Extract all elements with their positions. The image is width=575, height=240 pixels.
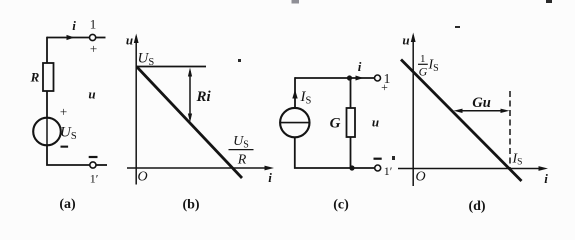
current source arrow IS direction: [292, 90, 297, 99]
current source IS (circle with bar): [280, 108, 309, 137]
svg-text:u: u: [88, 87, 95, 102]
terminal 1' of circuit (c): [375, 165, 381, 171]
terminal 1' of circuit (a): [90, 162, 96, 168]
graph (b) level line at u = US: [137, 66, 207, 68]
svg-text:R: R: [237, 153, 247, 168]
svg-text:(a): (a): [59, 197, 76, 212]
wire: left branch of (a) from top corner to resistor: [46, 37, 48, 63]
wire: bottom lead of (c): [294, 137, 375, 169]
svg-text:+: +: [381, 80, 388, 94]
svg-text:G: G: [419, 65, 428, 79]
svg-text:R: R: [30, 70, 40, 85]
wire: circuit (a) top lead from R to terminal 1: [47, 37, 89, 39]
polarity - at terminal 1' (a): [89, 156, 98, 158]
terminal stub right of node 1 (a): [96, 37, 106, 39]
graph (d) vertical axis u: [412, 35, 414, 186]
current arrow i on top wire of (a): [67, 35, 75, 40]
wire: from resistor to voltage source (a): [46, 91, 48, 118]
current arrow i on top wire of (c): [356, 76, 364, 81]
svg-text:(b): (b): [182, 198, 199, 213]
svg-text:1: 1: [420, 53, 426, 65]
terminal stub right of node 1' (a): [96, 164, 107, 166]
resistor R: [43, 63, 54, 91]
terminal 1 of circuit (c): [375, 75, 381, 81]
wire: middle branch of (c) above G: [350, 78, 352, 108]
svg-text:G: G: [330, 116, 341, 132]
graph (d) horizontal axis i: [398, 168, 544, 170]
svg-text:(d): (d): [468, 199, 485, 214]
voltage source US (circle symbol): [33, 118, 61, 146]
graph (b) horizontal axis i: [127, 167, 270, 169]
graph (d) load line from (1/G)IS to IS: [401, 60, 522, 182]
junction dot on top wire (c): [347, 75, 352, 80]
svg-text:O: O: [415, 170, 425, 185]
polarity - of source US: [61, 146, 69, 148]
wire: bottom lead of (a) to terminal 1': [46, 145, 89, 166]
svg-text:u: u: [372, 115, 379, 130]
wire: left branch of (c) above current source: [294, 77, 296, 108]
wire: circuit (c) top lead: [295, 77, 374, 79]
conductance G (rectangle): [347, 108, 356, 137]
svg-text:i: i: [268, 170, 272, 185]
svg-text:1′: 1′: [384, 164, 393, 178]
polarity - at terminal 1' (c): [374, 158, 382, 160]
graph (d) dashed line at i = IS: [509, 91, 511, 168]
graph (b) vertical axis u: [135, 36, 137, 185]
terminal 1 of circuit (a): [90, 34, 96, 40]
svg-text:Gu: Gu: [472, 95, 491, 111]
svg-text:i: i: [72, 18, 76, 33]
svg-text:+: +: [60, 104, 67, 119]
svg-text:1′: 1′: [90, 172, 99, 186]
wire: middle branch of (c) below G: [350, 137, 352, 168]
svg-text:u: u: [402, 33, 409, 48]
graph (b) Ri measure arrow: [189, 71, 191, 119]
svg-text:Ri: Ri: [196, 89, 212, 105]
graph (b) load line from US to US/R: [137, 67, 243, 179]
svg-text:i: i: [358, 59, 362, 74]
svg-text:+: +: [90, 41, 97, 56]
junction dot on bottom wire (c): [349, 165, 354, 170]
svg-text:u: u: [126, 33, 133, 48]
svg-text:i: i: [544, 171, 548, 186]
svg-text:(c): (c): [333, 198, 349, 213]
svg-text:1: 1: [90, 17, 97, 32]
svg-text:O: O: [137, 170, 147, 185]
graph (d) Gu measure arrow: [457, 110, 506, 112]
